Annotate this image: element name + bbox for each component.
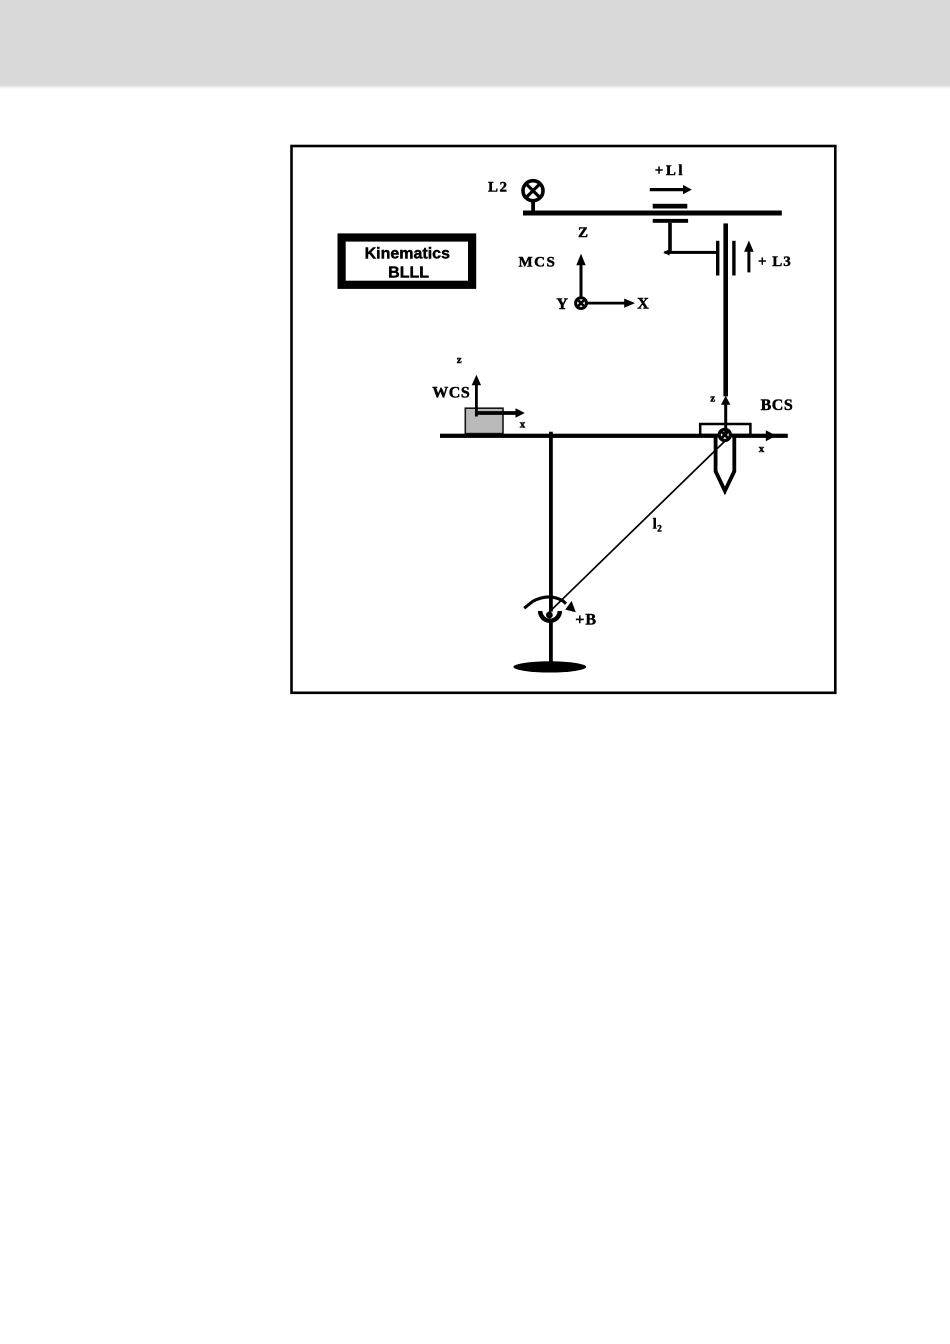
svg-text:l: l — [653, 516, 657, 532]
svg-text:+B: +B — [575, 612, 597, 629]
L1 direction arrow — [650, 185, 692, 194]
Kinematics BLLL title box — [338, 233, 477, 289]
top rail (machine bed) — [523, 211, 782, 216]
L1 slide upper pad — [653, 204, 688, 209]
svg-text:WCS: WCS — [432, 385, 470, 402]
vertical column (ram) — [723, 223, 728, 396]
MCS x-axis — [581, 299, 635, 308]
WCS x-axis — [475, 408, 525, 418]
BCS saddle box — [700, 424, 750, 435]
rotary column upper segment — [549, 432, 553, 612]
base ellipse — [513, 661, 586, 672]
B pivot semicircle — [540, 611, 560, 621]
L3 direction arrow (up) — [744, 241, 754, 273]
label l2 — [653, 516, 663, 533]
link horizontal to L3 slide — [663, 249, 716, 255]
lamp symbol L2 (circle with X on stem) — [523, 181, 543, 211]
workpiece block — [465, 408, 503, 433]
diagram frame — [292, 146, 836, 693]
header gray band — [0, 0, 950, 89]
L3 slide right pad — [732, 241, 735, 276]
svg-text:MCS: MCS — [519, 254, 557, 270]
link rod l2 — [547, 440, 726, 614]
MCS z-axis — [576, 254, 585, 303]
svg-text:2: 2 — [657, 524, 662, 534]
svg-text:BCS: BCS — [761, 397, 794, 414]
B rotation arrow arc — [524, 597, 576, 612]
svg-text:+Ll: +Ll — [655, 163, 685, 179]
rotary column lower segment — [549, 623, 553, 663]
svg-text:z: z — [457, 354, 462, 366]
svg-text:Y: Y — [556, 296, 568, 313]
svg-text:X: X — [637, 295, 649, 312]
svg-text:Z: Z — [578, 225, 588, 241]
svg-text:x: x — [520, 418, 526, 430]
BCS origin (spindle nose) — [719, 429, 730, 440]
svg-text:L2: L2 — [488, 180, 509, 196]
MCS origin (Y axis into page) — [576, 298, 587, 309]
L3 slide left pad — [716, 241, 719, 276]
svg-text:Kinematics: Kinematics — [365, 246, 450, 263]
tool (spindle pencil) — [716, 438, 735, 491]
B pivot dot — [546, 612, 553, 619]
svg-text:BLLL: BLLL — [388, 264, 429, 281]
BCS z-axis — [721, 396, 730, 435]
svg-text:x: x — [759, 443, 765, 455]
svg-text:+ L3: + L3 — [758, 254, 792, 270]
link from L1 slide down — [668, 223, 672, 252]
tool tip tick — [724, 491, 726, 494]
table line / BCS x-axis — [440, 430, 788, 441]
L1 slide lower pad — [653, 219, 688, 223]
svg-text:z: z — [710, 392, 715, 404]
WCS z-axis — [472, 375, 481, 417]
